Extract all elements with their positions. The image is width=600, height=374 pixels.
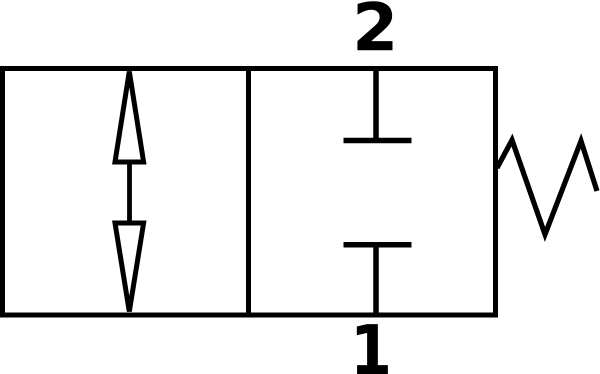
- port label 1: [357, 324, 388, 374]
- blocked port 2 bar: [344, 138, 412, 144]
- position divider: [246, 66, 251, 318]
- flow arrow up triangle: [115, 72, 144, 163]
- blocked port 1 stub: [373, 245, 379, 318]
- valve body (2-position envelope): [3, 69, 496, 316]
- blocked port 2 stub: [373, 66, 379, 141]
- port label 2: [357, 1, 392, 50]
- flow arrow stem: [127, 161, 132, 224]
- flow arrow down triangle: [115, 223, 144, 312]
- spring: [497, 140, 597, 235]
- blocked port 1 bar: [344, 242, 412, 248]
